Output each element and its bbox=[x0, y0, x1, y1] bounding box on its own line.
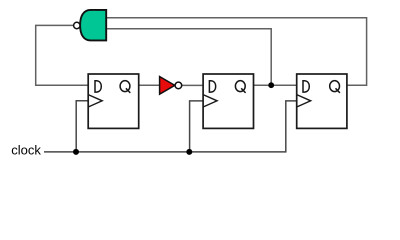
D flip-flop FF3 body bbox=[297, 74, 347, 128]
D flip-flop FF3 clock triangle bbox=[297, 95, 311, 107]
D flip-flop FF1 pin label D bbox=[95, 81, 101, 92]
wire: FF1 Q to inverter input bbox=[139, 84, 160, 86]
inverter U2 output bubble bbox=[175, 82, 182, 89]
D flip-flop FF3 pin label D bbox=[303, 81, 309, 92]
junction node A dot between FF2 Q and FF3 D bbox=[268, 82, 274, 88]
D flip-flop FF2 pin label Q bbox=[235, 81, 245, 93]
D flip-flop FF2 pin label D bbox=[209, 81, 215, 92]
D flip-flop FF1 body bbox=[88, 74, 139, 128]
svg-text:clock: clock bbox=[11, 143, 41, 158]
wire: feedback FF3 Q to NAND top input bbox=[106, 18, 366, 86]
inverter U2 triangle bbox=[160, 77, 175, 95]
NAND gate U1 output bubble bbox=[74, 22, 80, 28]
junction dot on clock bus at FF2 riser bbox=[186, 149, 192, 155]
wire: NAND output to FF1 D input bbox=[36, 25, 88, 85]
wire: clock riser to FF2 bbox=[190, 101, 204, 152]
D flip-flop FF2 body bbox=[203, 74, 253, 128]
wire: inverter output to FF2 D input bbox=[182, 84, 203, 86]
D flip-flop FF1 clock triangle bbox=[88, 95, 102, 107]
D flip-flop FF3 pin label Q bbox=[330, 81, 340, 93]
D flip-flop FF2 clock triangle bbox=[203, 95, 217, 107]
wire: feedback node A to NAND bottom input bbox=[106, 29, 271, 86]
NAND gate U1 (mirrored, output on left) bbox=[80, 10, 106, 41]
wire: clock bus bbox=[44, 101, 297, 152]
wire: clock riser to FF1 bbox=[76, 101, 88, 152]
D flip-flop FF1 pin label Q bbox=[120, 81, 130, 93]
wire: FF2 Q to FF3 D input bbox=[254, 84, 297, 86]
junction dot on clock bus at FF1 riser bbox=[73, 149, 79, 155]
